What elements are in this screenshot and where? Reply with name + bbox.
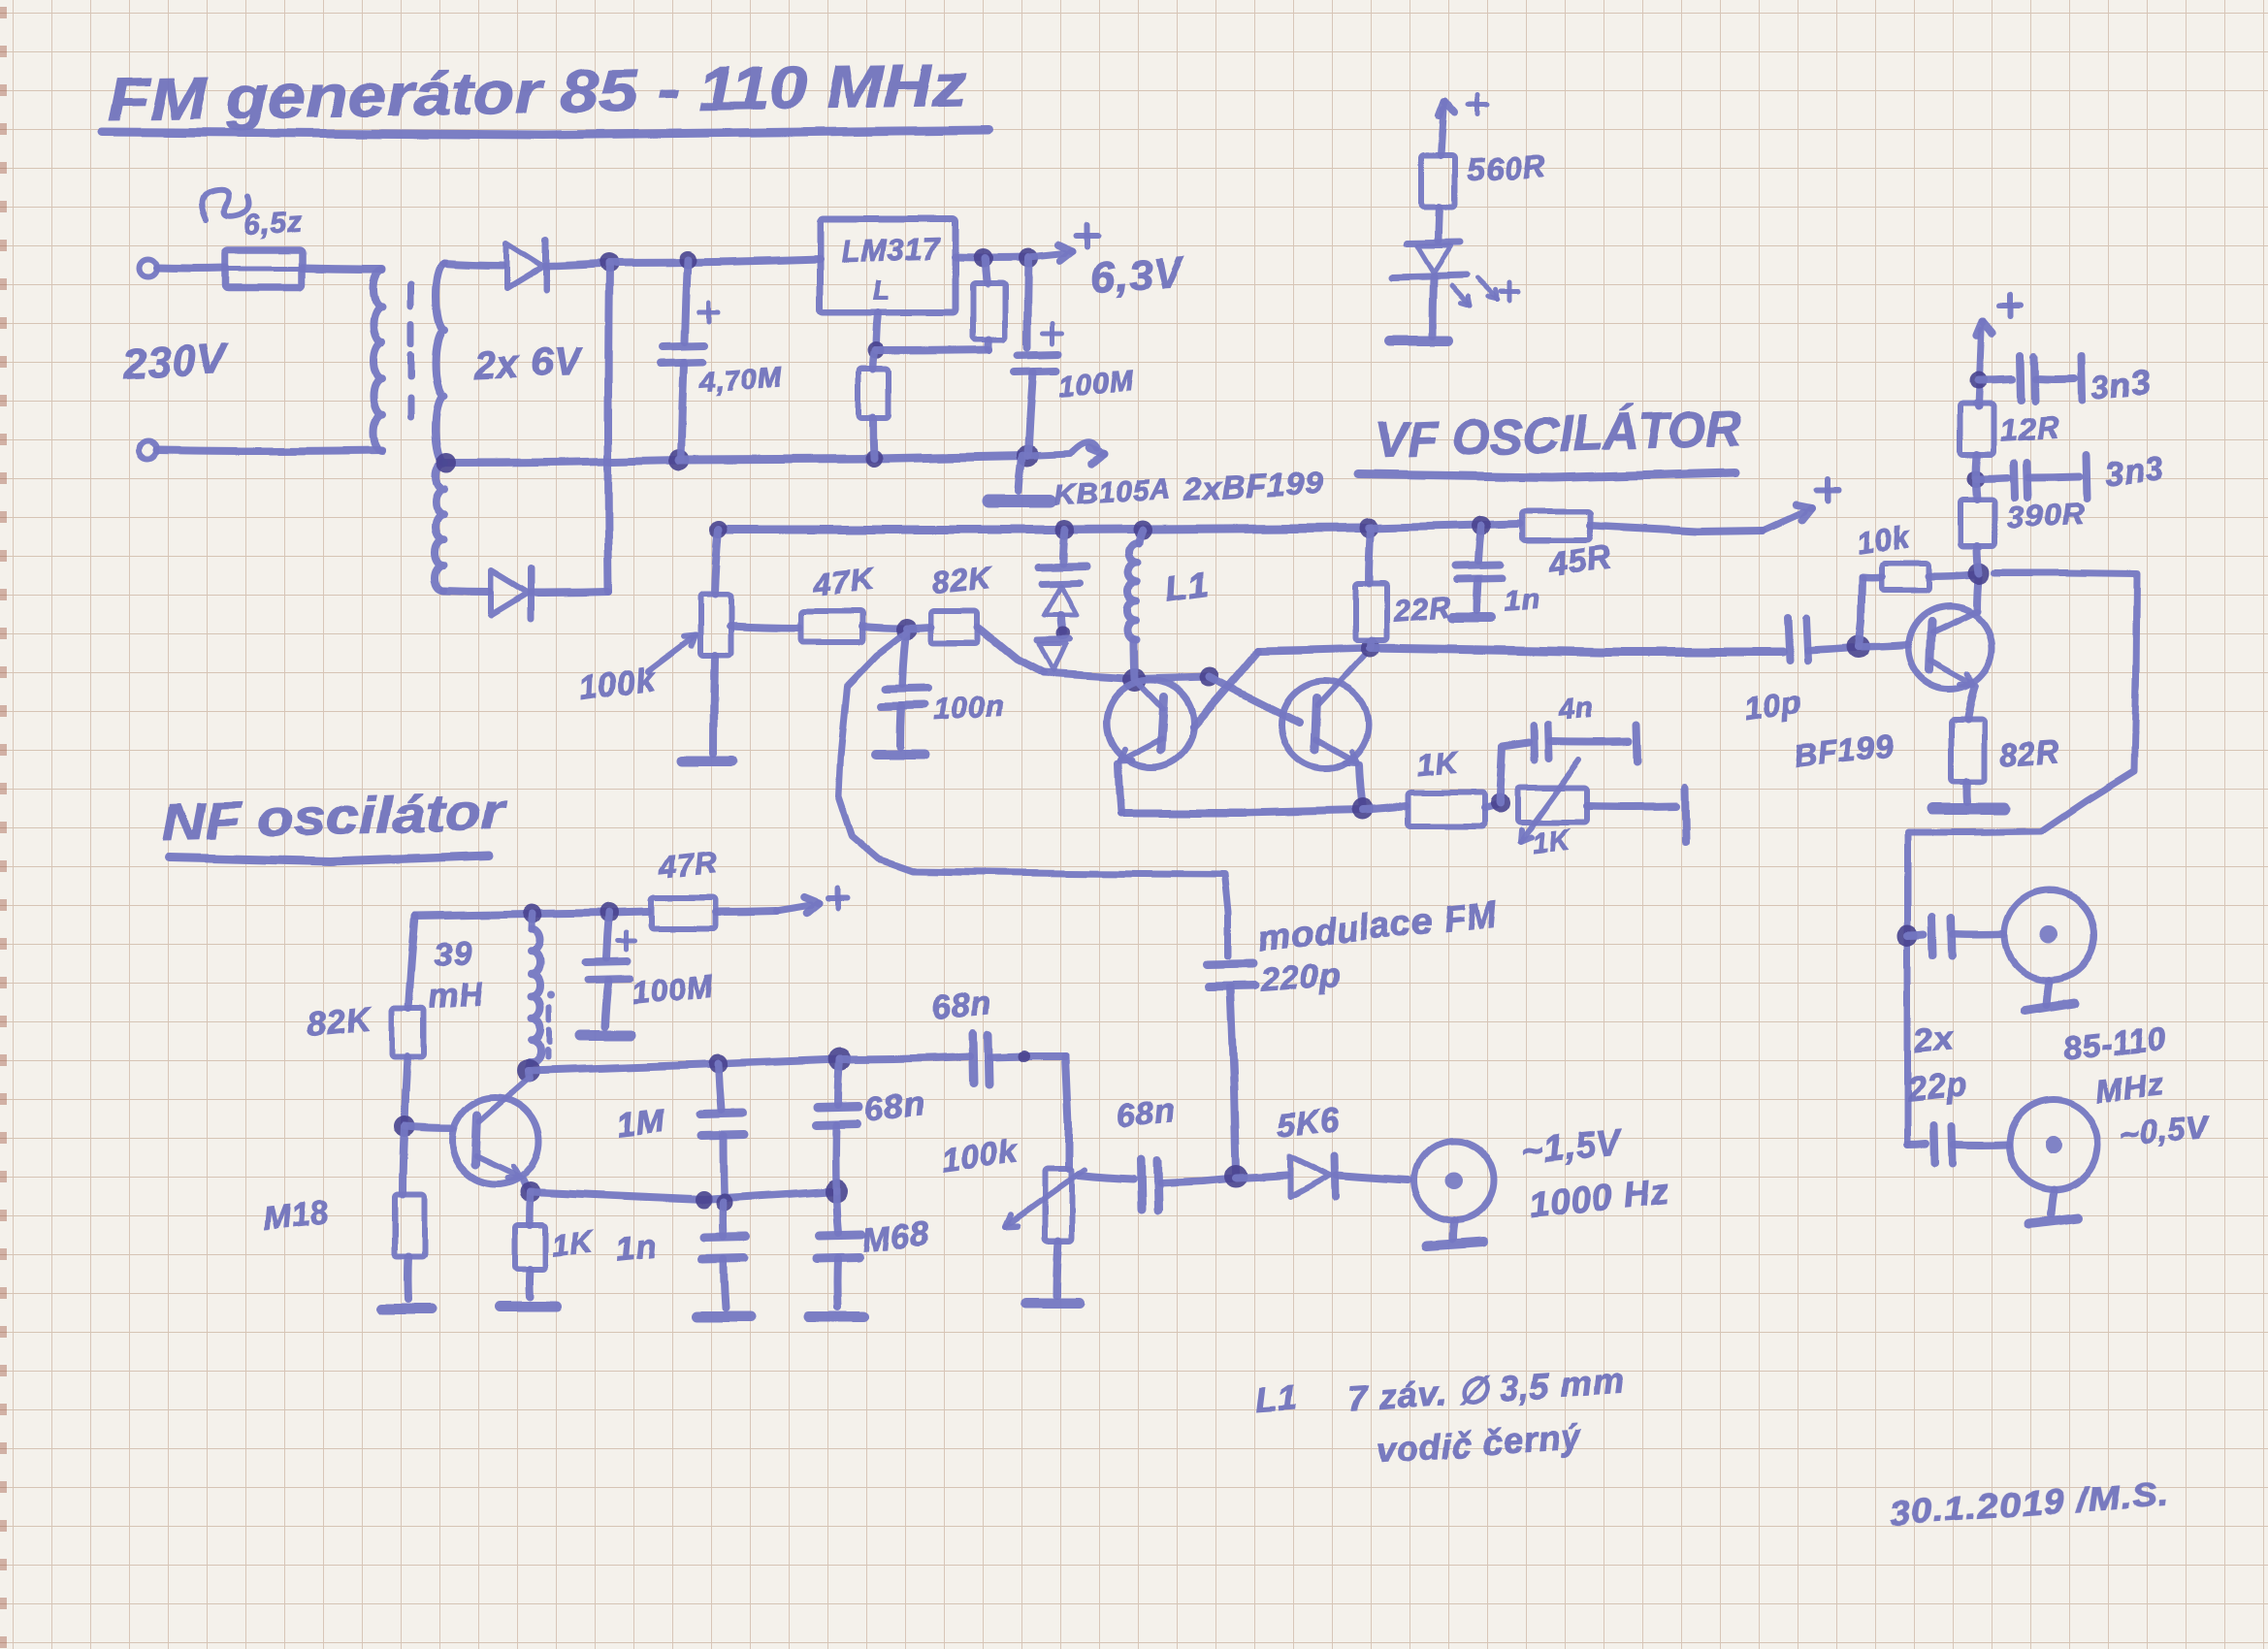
resistor R1 (LM317 set) (986, 258, 988, 283)
wire Q4 emitter (523, 1180, 531, 1192)
svg-text:LM317: LM317 (841, 231, 941, 269)
wire (1337, 1176, 1409, 1180)
svg-text:6,5z: 6,5z (243, 206, 304, 242)
svg-text:39: 39 (433, 934, 473, 974)
terminal: mains input N (139, 441, 156, 459)
capacitor C7 10p (1788, 617, 1790, 661)
resistor R13 47R (651, 897, 716, 928)
node Q4 emitter (520, 1181, 541, 1203)
ground (1433, 277, 1434, 337)
wire LM317 out (956, 253, 1028, 262)
svg-text:22R: 22R (1392, 590, 1453, 628)
node output cap 1 (1897, 924, 1919, 946)
node pot top (710, 521, 728, 538)
transformer T1 secondary winding (436, 264, 444, 463)
capacitor C14 (1n) (704, 1237, 747, 1238)
wire (1484, 804, 1498, 808)
wire 0V rail arrow out (1028, 442, 1097, 456)
svg-text:100M: 100M (1058, 367, 1135, 403)
svg-text:NF oscilátor: NF oscilátor (161, 784, 507, 852)
node 22R top (1359, 518, 1378, 537)
resistor R5 47K (801, 611, 862, 642)
fuse symbol squiggle (203, 189, 249, 219)
resistor R16 1K (530, 1192, 531, 1225)
node cap C1 top (679, 251, 697, 269)
svg-text:82R: 82R (1998, 733, 2062, 773)
svg-text:220p: 220p (1258, 955, 1343, 999)
wire modulace FM (838, 632, 1228, 955)
node 220p bottom (1224, 1165, 1247, 1188)
svg-text:4,70M: 4,70M (697, 362, 784, 399)
ground (1056, 1241, 1058, 1296)
wire 82K to varicap node (978, 628, 1043, 673)
node R8/P2 (1490, 793, 1509, 813)
capacitor C10 22p (1908, 934, 1925, 935)
svg-text:2x 6V: 2x 6V (473, 340, 584, 387)
svg-text:MHz: MHz (2094, 1066, 2166, 1109)
svg-text:560R: 560R (1465, 147, 1547, 187)
label + (1501, 289, 1518, 294)
ground (405, 1257, 413, 1300)
svg-text:47R: 47R (656, 845, 720, 886)
capacitor C11 22p (1908, 1144, 1927, 1145)
diode D1 (506, 242, 543, 288)
wire Q2 emitter (1359, 765, 1363, 809)
svg-text:L1: L1 (1162, 564, 1211, 609)
transformer core dashes (408, 284, 415, 307)
node (825, 1180, 848, 1203)
svg-text:3n3: 3n3 (2103, 450, 2166, 493)
wire +6,3V arrow (1028, 253, 1065, 257)
svg-text:mH: mH (428, 976, 486, 1017)
wire (1236, 1176, 1286, 1179)
wire Q3 emitter (1967, 687, 1975, 720)
diode D2 (491, 570, 528, 615)
capacitor C4 220p (1208, 963, 1252, 964)
svg-text:68n: 68n (863, 1085, 926, 1128)
wire Q1 emitter (1118, 764, 1120, 813)
node 22R bottom (1361, 638, 1380, 658)
node C12 top (599, 903, 619, 922)
inductor L2 39mH (532, 914, 533, 929)
node varicap top (1054, 520, 1074, 539)
resistor R10 82R (1951, 720, 1984, 782)
wire ADJ (876, 312, 878, 350)
node (695, 1191, 712, 1209)
resistor R3 560R (1421, 155, 1454, 208)
wire NF left branch (408, 916, 415, 1009)
wire oscillator to buffer (long) (1371, 648, 1783, 652)
wire Q4 base (405, 1127, 452, 1129)
wire (1363, 806, 1407, 810)
wire cross couple A (1193, 651, 1259, 727)
capacitor C17 68n series (840, 1056, 970, 1059)
node Q2 emitter rail (1352, 798, 1374, 820)
wire varicap to base node (1043, 673, 1210, 679)
node (716, 1194, 733, 1212)
wire (303, 268, 382, 269)
wire cross couple B (1210, 677, 1300, 723)
led arrows (1452, 286, 1471, 307)
terminal bar (1685, 788, 1686, 842)
capacitor C5 1n (1478, 526, 1481, 561)
capacitor C15 68n (838, 1059, 840, 1104)
svg-text:M68: M68 (860, 1215, 931, 1259)
svg-text:2x: 2x (1912, 1019, 1957, 1060)
node Q4 base (394, 1116, 415, 1138)
node C9 (1967, 469, 1985, 487)
transistor Q3 BF199 (1908, 606, 1992, 690)
node rectifier + (599, 253, 619, 273)
wire (156, 450, 382, 451)
svg-text:6,3V: 6,3V (1089, 248, 1186, 303)
capacitor C6 4n (1500, 743, 1529, 803)
led D5 (1438, 208, 1439, 241)
transistor Q4 (452, 1097, 539, 1184)
node Q3 collector (1968, 563, 1990, 584)
wire output loop (1908, 573, 2137, 1145)
svg-text:230V: 230V (121, 335, 231, 388)
svg-text:1K: 1K (1530, 824, 1573, 860)
connector J2 output (2009, 1100, 2098, 1189)
wire 47R arrow + (716, 911, 776, 912)
capacitor C3 100n (902, 632, 906, 685)
wire cathode bus (608, 263, 609, 592)
wire NF rail2 (528, 1059, 840, 1071)
wire wiper rail (1079, 1176, 1133, 1180)
trimmer P3 100k (1045, 1169, 1072, 1241)
svg-text:1K: 1K (550, 1223, 597, 1262)
varicap D3 KB105A (1062, 530, 1064, 564)
ground (1963, 782, 1972, 802)
node C15 top (828, 1048, 852, 1071)
wire (862, 627, 904, 629)
wire wiper to 47K (729, 626, 799, 628)
potentiometer P1 100k (715, 530, 719, 595)
wire (531, 592, 609, 593)
wire down to P3 (1066, 1056, 1069, 1169)
resistor R4 45R (1522, 511, 1591, 540)
node 0V C (1018, 445, 1039, 467)
node cap C2 top (1019, 248, 1038, 268)
capacitor C16 M68 (836, 1191, 838, 1233)
wire center tap to 0V rail (446, 460, 679, 463)
connector J3 1000Hz out (1414, 1141, 1494, 1220)
wire secondary top to diode (444, 264, 502, 266)
capacitor C9 3n3 (1976, 477, 2008, 478)
resistor R12 390R (1976, 478, 1977, 500)
inductor L1 (1138, 530, 1142, 543)
capacitor C1 4700u (685, 260, 688, 341)
wire Q3 collector (1977, 573, 1979, 611)
resistor R2 (LM317 adj) (873, 351, 875, 370)
svg-text:22p: 22p (1905, 1066, 1969, 1109)
capacitor C18 68n (1141, 1160, 1142, 1210)
node Q2 base wire (1200, 667, 1219, 687)
capacitor C8 3n3 (1979, 379, 2012, 380)
resistor R9 10K (1859, 578, 1863, 647)
terminal: mains input L (139, 259, 156, 276)
diode D4 (5K6) (1290, 1156, 1330, 1197)
svg-text:3n3: 3n3 (2090, 365, 2153, 407)
resistor R11 12R (1977, 404, 1979, 406)
svg-text:1M: 1M (616, 1103, 667, 1145)
wire Q2 collector rail (1259, 648, 1371, 651)
label + (1999, 303, 2021, 308)
wire + supply arrow up (right) (1979, 330, 1982, 406)
node R5/R6 (895, 619, 917, 640)
wire secondary bottom to diode (444, 591, 489, 592)
wire (546, 263, 609, 266)
svg-text:KB105A: KB105A (1054, 473, 1174, 511)
wire +supply arrow up (1441, 109, 1443, 155)
svg-text:4n: 4n (1556, 691, 1596, 727)
svg-text:1K: 1K (1415, 745, 1461, 783)
svg-text:390R: 390R (2006, 495, 2087, 535)
wire NF emitter rail (531, 1191, 836, 1200)
core dashes (546, 1007, 552, 1020)
node C8 (1970, 372, 1988, 389)
wire Q4 collector (528, 1071, 529, 1079)
svg-text:82K: 82K (306, 1000, 373, 1044)
node L1 top (1132, 520, 1151, 539)
wire (156, 264, 225, 273)
svg-text:82K: 82K (930, 560, 995, 600)
node Q1 collector (1123, 668, 1147, 692)
wire NF supply rail (415, 912, 648, 916)
regulator U1 LM317 box (820, 219, 956, 312)
wire 0V rail (679, 456, 1028, 460)
node C13 top (709, 1054, 729, 1074)
wire (1160, 1179, 1235, 1183)
wire rail to 45R (1369, 524, 1519, 528)
node 0V A (668, 449, 690, 470)
resistor R6 82K (931, 611, 978, 643)
node LM317 out (974, 248, 993, 268)
transistor Q1 (1107, 680, 1194, 767)
resistor R14 82K (392, 1009, 424, 1056)
ground under 0V rail (1020, 456, 1023, 490)
transistor Q2 (1281, 681, 1369, 768)
connector J1 output (2005, 890, 2094, 980)
wire VF emitter rail (1120, 810, 1363, 813)
svg-text:M18: M18 (261, 1194, 332, 1238)
trimmer P2 1K (1517, 788, 1588, 823)
svg-text:1n: 1n (614, 1228, 658, 1269)
node 39mH top (523, 904, 542, 923)
wire (1808, 648, 1855, 651)
wire rail arrow + (1591, 526, 1764, 532)
capacitor C12 100M (606, 913, 609, 958)
svg-text:2xBF199: 2xBF199 (1183, 465, 1324, 507)
svg-text:68n: 68n (1115, 1092, 1178, 1135)
transformer T1 primary winding (373, 270, 382, 451)
svg-text:L: L (873, 275, 891, 305)
svg-text:12R: 12R (1998, 409, 2060, 448)
node C5 top (1472, 516, 1491, 535)
svg-text:5K6: 5K6 (1276, 1101, 1343, 1145)
svg-text:100n: 100n (931, 688, 1006, 727)
node L2 bottom / Q4 collector (516, 1059, 539, 1083)
capacitor C2 100M (1027, 258, 1028, 347)
svg-text:L1: L1 (1254, 1376, 1300, 1419)
resistor R15 M18 (395, 1194, 424, 1257)
label + (1469, 103, 1488, 108)
wire rail to LM317 (609, 259, 820, 263)
wire (403, 1127, 405, 1194)
resistor R7 22R (1369, 528, 1371, 584)
label + (1077, 233, 1098, 239)
svg-text:68n: 68n (930, 986, 993, 1028)
resistor R8 1K (1409, 792, 1484, 826)
node Q3 base (1847, 635, 1870, 659)
wire VF supply rail (719, 528, 1369, 530)
svg-text:1n: 1n (1504, 583, 1541, 618)
fuse F1 (225, 250, 303, 287)
wire (1588, 802, 1676, 811)
capacitor C13 (1M) (719, 1064, 722, 1111)
node 0V B (865, 450, 883, 468)
svg-text:47K: 47K (811, 562, 877, 603)
ground (526, 1269, 535, 1297)
label + (1817, 487, 1838, 493)
wire (405, 1056, 407, 1125)
